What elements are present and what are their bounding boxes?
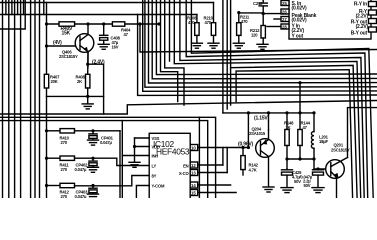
resistor R208 vertical: [191, 15, 202, 49]
RC row 2: [45, 156, 149, 172]
wire R408 bottom: [87, 88, 89, 96]
wire left bundle short vertical d: [23, 0, 25, 15]
ground under C408: [98, 44, 109, 49]
wire collector net y24: [47, 23, 160, 25]
junction node (300,112.9): [298, 111, 301, 114]
pin box 28: [281, 24, 289, 29]
junction node (88,24): [86, 22, 89, 25]
svg-text:INH: INH: [152, 154, 159, 159]
capacitor C426 electrolytic: [312, 169, 324, 193]
wire left bundle short vertical a: [5, 0, 7, 15]
svg-text:B-Y out: B-Y out: [351, 31, 368, 37]
svg-text:8Y: 8Y: [152, 174, 157, 179]
wire left bundle short vertical g: [43, 0, 45, 15]
junction node (300,82.7): [298, 81, 301, 84]
svg-text:12: 12: [191, 163, 196, 168]
RC row 3: [45, 176, 149, 197]
IC201 box top-right: [289, 0, 371, 39]
bus stub 169.5: [169, 0, 171, 61]
junction node (314,159): [312, 157, 315, 160]
svg-text:(2.2V): (2.2V): [356, 24, 369, 30]
svg-text:X-CO: X-CO: [179, 171, 190, 176]
svg-text:2SC1815Y: 2SC1815Y: [331, 148, 350, 153]
transistor Q406: [75, 24, 94, 67]
svg-text:R-Y In: R-Y In: [354, 2, 367, 8]
svg-text:28: 28: [282, 24, 287, 29]
resistor R212 vertical: [257, 14, 281, 50]
capacitor C408 electrolytic: [100, 24, 108, 44]
bus wire 3: [180, 0, 364, 198]
junction node (248.4,112.9): [247, 111, 250, 114]
ground under rail: [82, 96, 93, 109]
wire left bundle full vertical 3: [14, 0, 16, 198]
svg-text:270: 270: [61, 140, 68, 145]
svg-text:0.047µ: 0.047µ: [100, 140, 112, 145]
svg-text:13: 13: [191, 171, 196, 176]
junction node (238.8,12.6): [237, 11, 240, 14]
right pin boxes: [369, 2, 377, 7]
svg-text:0.047µ: 0.047µ: [75, 167, 87, 172]
junction node (300,159): [298, 157, 301, 160]
svg-text:(2.4V): (2.4V): [92, 60, 105, 66]
wire emitter tap jog: [88, 64, 104, 114]
svg-text:HEF4053: HEF4053: [156, 147, 190, 157]
RC network right edge drop: [119, 131, 121, 198]
bus wire 1: [191, 0, 373, 198]
svg-text:10: 10: [191, 146, 196, 151]
svg-text:15K: 15K: [62, 31, 71, 37]
wire base net y46: [47, 45, 79, 47]
resistor R408 vertical body (on emitter line): [86, 74, 90, 88]
bus feeder RD6: [236, 70, 353, 198]
junction node (46.5,158.2): [45, 157, 48, 160]
pin box 27: [281, 17, 289, 22]
resistor R144: [298, 81, 302, 159]
wire left bundle full vertical 7: [39, 0, 41, 198]
svg-text:2SC1815Y: 2SC1815Y: [59, 54, 78, 59]
inductor L201: [311, 111, 315, 169]
junction node (103.7,24): [102, 22, 105, 25]
bus wire 0 from R404 node: [140, 24, 377, 52]
wire R211 to IC pin 26: [239, 12, 263, 14]
junction node (46.5,46): [45, 44, 48, 47]
svg-text:Y-COM: Y-COM: [152, 184, 165, 189]
junction node (93,158.2): [91, 157, 94, 160]
junction node (134.5,146.5): [133, 145, 136, 148]
svg-text:VDD: VDD: [152, 145, 160, 150]
svg-text:120: 120: [251, 33, 258, 38]
IC102 left pin stubs: [135, 137, 150, 139]
junction node (314,112.9): [312, 111, 315, 114]
capacitor C212 series: [259, 0, 281, 19]
junction node (263.2,13.6): [262, 12, 265, 15]
svg-text:2SA1015: 2SA1015: [249, 131, 266, 136]
svg-text:LY: LY: [152, 164, 157, 169]
svg-text:14: 14: [191, 183, 196, 188]
svg-text:4.7K: 4.7K: [249, 168, 257, 173]
resistor R407 vertical body (in series on x46.5): [44, 74, 48, 88]
resistor R404 body: [112, 22, 124, 26]
wire y159: [287, 158, 314, 160]
junction dots top-left: [45, 22, 48, 25]
junction node (287,159): [285, 157, 288, 160]
junction node (93,130.8): [91, 129, 94, 132]
svg-text:25: 25: [282, 1, 287, 6]
transistor Q204: [256, 130, 275, 187]
bus wire 9: [149, 0, 377, 83]
ground left of IC102: [129, 162, 140, 167]
wire left bundle full vertical 4: [20, 0, 22, 198]
svg-text:16V: 16V: [112, 45, 119, 50]
svg-text:1K: 1K: [286, 125, 291, 130]
wire drop x199.4: [198, 117, 200, 198]
svg-text:EN: EN: [183, 163, 189, 168]
svg-text:270: 270: [61, 194, 68, 198]
jog wire W3: [0, 121, 208, 198]
IC102 section boxes bottom-middle: [121, 121, 123, 198]
svg-text:0.047µ: 0.047µ: [75, 194, 87, 198]
svg-text:18µF: 18µF: [319, 139, 328, 144]
svg-text:50V: 50V: [294, 179, 301, 184]
svg-text:VSS: VSS: [152, 136, 160, 141]
wire top-left horizontal bus line y2.5: [0, 2, 214, 4]
wire left bundle full vertical 6: [34, 0, 36, 198]
wire left bundle full vertical 5: [30, 0, 32, 198]
resistor R409 body: [59, 22, 75, 26]
Q201 collector up: [348, 108, 377, 158]
svg-text:(4V): (4V): [53, 40, 62, 46]
svg-text:2K: 2K: [77, 79, 82, 84]
svg-text:470: 470: [188, 20, 195, 25]
bus wire 11: [143, 0, 377, 91]
wire peel-left at y29: [0, 0, 25, 29]
jog wire W1: [0, 101, 377, 115]
resistor R148: [285, 113, 289, 169]
svg-text:27: 27: [282, 17, 287, 22]
junction node (46.5,185.5): [45, 184, 48, 187]
svg-text:Y out: Y out: [292, 34, 304, 40]
svg-text:20K: 20K: [51, 79, 58, 84]
pin box 26: [281, 9, 289, 14]
junction node (268.5,112.9): [267, 111, 270, 114]
wire left bundle full vertical 1: [2, 0, 4, 198]
svg-text:270: 270: [61, 167, 68, 172]
wire left bundle short vertical c: [17, 0, 19, 15]
transistor Q201: [326, 158, 348, 199]
bus wire 2: [186, 0, 368, 198]
svg-text:50V: 50V: [304, 183, 311, 188]
svg-text:(0.96V): (0.96V): [238, 142, 254, 148]
junction node (140,24): [138, 22, 141, 25]
capacitor C425 electrolytic: [281, 169, 293, 193]
bus wire 5 jog down: [165, 0, 184, 105]
bus wire 12: [138, 15, 377, 96]
wire top-left horizontal bus line y14.5: [0, 14, 197, 16]
svg-text:470: 470: [205, 20, 212, 25]
junction node (93,185.5): [91, 184, 94, 187]
junction node (46.5,130.8): [45, 129, 48, 132]
svg-text:26: 26: [282, 9, 287, 14]
bus wire 4: [174, 0, 360, 198]
RC row 1: [45, 129, 120, 146]
bus wire 6 jog down: [161, 0, 178, 102]
resistor R210 vertical: [208, 3, 219, 49]
IC102 right pins: [190, 145, 198, 151]
junction node (87.7,64.2): [86, 63, 89, 66]
resistor R142: [241, 146, 245, 175]
junction node (243,147.5): [241, 146, 244, 149]
wire bottom rail y96.4: [47, 95, 104, 97]
wire left bundle short vertical b: [11, 0, 13, 15]
wire emitter down: [87, 52, 89, 74]
3-line bundle top-middle-right: [222, 0, 224, 113]
junction node (87.7,96.4): [86, 95, 89, 98]
ground under Q204 emitter: [263, 187, 274, 192]
(1.15V) supply line: [223, 112, 314, 114]
svg-text:C212: C212: [253, 1, 263, 6]
wire left long vertical node line x46.5: [46, 3, 48, 199]
resistor R211 vertical: [233, 13, 244, 49]
left cross wire W2: [0, 117, 216, 198]
junction node (287,112.9): [285, 111, 288, 114]
junction node (248.4,147.5): [247, 146, 250, 149]
svg-text:(1.15V): (1.15V): [254, 116, 270, 122]
bus wire 10: [145, 0, 377, 87]
wire left bundle full vertical 2: [8, 0, 10, 198]
junction node (318,169): [316, 167, 319, 170]
svg-text:470: 470: [241, 19, 248, 24]
IC102 box: [149, 133, 190, 203]
bus wire 8: [152, 0, 377, 79]
bus feeder RD5: [230, 0, 232, 105]
svg-text:15: 15: [191, 191, 196, 196]
svg-text:(0.02V): (0.02V): [292, 6, 308, 12]
pin box 25: [281, 1, 289, 6]
junction node (159,24): [157, 22, 160, 25]
bus wire 7: [156, 0, 377, 75]
